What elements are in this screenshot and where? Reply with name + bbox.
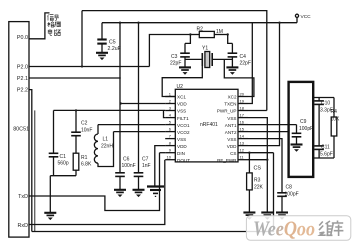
wire VSS pin14 to C8 <box>248 139 282 193</box>
VDD rail B <box>102 22 297 24</box>
ground at TxD area <box>44 213 56 220</box>
80C51 MCU box <box>9 22 29 238</box>
wire XC2 riser <box>224 59 254 96</box>
svg-text:R3: R3 <box>254 178 261 184</box>
node dot C6 rail <box>119 22 121 24</box>
ground for C7 <box>133 190 145 197</box>
wire RxD to DOUT <box>29 160 165 225</box>
capacitor C1 560p <box>49 110 69 175</box>
svg-text:C2: C2 <box>81 121 88 127</box>
antenna loop box <box>289 82 314 177</box>
svg-text:100nF: 100nF <box>122 163 136 169</box>
svg-text:12: 12 <box>240 148 245 153</box>
crystal net left wire <box>185 58 202 60</box>
wire ANT1 to C9 <box>248 124 297 126</box>
svg-text:80C51: 80C51 <box>13 127 29 133</box>
svg-text:100pF: 100pF <box>299 126 313 132</box>
wire VDD pin13 riser to rail B <box>248 23 280 146</box>
resistor R4 10K <box>331 98 341 159</box>
svg-text:TxD: TxD <box>18 194 28 200</box>
capacitor C2 10nF <box>71 110 92 153</box>
svg-text:10nF: 10nF <box>81 127 92 133</box>
svg-text:CS: CS <box>254 166 262 172</box>
svg-text:DIN: DIN <box>177 151 185 156</box>
antenna match bottom node <box>313 157 334 159</box>
node dot CS-R3 <box>248 152 250 154</box>
wire PWR_UP pin18 <box>248 110 267 112</box>
svg-text:VSS: VSS <box>177 137 186 142</box>
svg-text:5: 5 <box>169 120 172 125</box>
inductor L1 22nH <box>94 125 113 167</box>
capacitor C3 22pF <box>170 43 190 67</box>
svg-text:nRF401: nRF401 <box>200 122 218 128</box>
svg-text:13: 13 <box>240 141 245 146</box>
node dot R2 right <box>227 33 229 35</box>
node dot VDD rail <box>278 22 280 24</box>
CS bottom rail <box>32 153 274 232</box>
svg-text:7: 7 <box>169 134 172 139</box>
svg-text:560p: 560p <box>58 161 69 167</box>
svg-text:C1: C1 <box>60 154 67 160</box>
svg-text:XC2: XC2 <box>228 95 237 100</box>
svg-text:10K: 10K <box>331 117 341 123</box>
svg-text:C6: C6 <box>123 156 130 162</box>
wire VDD pin2 <box>121 103 166 105</box>
node dot P2.0 rail A branch <box>81 65 83 67</box>
svg-text:Y1: Y1 <box>202 46 208 52</box>
resistor R1 6.8K <box>73 153 92 176</box>
capacitor C7 1nF <box>134 23 151 190</box>
svg-text:4: 4 <box>169 113 172 118</box>
node dot R2 left <box>189 33 191 35</box>
svg-text:C11: C11 <box>321 145 330 151</box>
svg-text:22pF: 22pF <box>240 61 251 67</box>
crystal Y1 <box>202 46 212 68</box>
svg-text:2: 2 <box>169 99 172 104</box>
wire XC1 riser <box>162 66 202 97</box>
VCC terminal <box>295 14 311 23</box>
svg-text:1M: 1M <box>216 29 223 35</box>
wire P2.1 <box>29 77 121 79</box>
svg-text:VSS: VSS <box>177 109 186 114</box>
ground for C6 <box>114 190 126 197</box>
svg-text:VCC: VCC <box>301 14 312 20</box>
svg-text:VCO2: VCO2 <box>177 130 190 135</box>
svg-text:VCO1: VCO1 <box>177 123 190 128</box>
wire VCO1 <box>98 124 165 126</box>
node dot VDD pin2 <box>120 102 122 104</box>
wire parallel riser <box>34 110 36 231</box>
wire CS pin12 <box>248 152 274 154</box>
jog to pin4 <box>164 110 166 117</box>
svg-text:TXEN: TXEN <box>224 102 236 107</box>
svg-text:C3: C3 <box>171 54 178 60</box>
svg-text:L1: L1 <box>103 137 109 143</box>
svg-text:VSS: VSS <box>227 116 236 121</box>
ground G3 <box>276 213 288 220</box>
wire ANT2 to antenna box <box>248 131 289 133</box>
svg-text:20: 20 <box>240 92 245 97</box>
capacitor C11 5.6pF <box>314 145 332 159</box>
svg-text:16: 16 <box>240 120 245 125</box>
crystal net right wire <box>212 58 232 60</box>
wire P2.2 riser down to CS rail <box>29 90 32 232</box>
svg-text:5.6pF: 5.6pF <box>320 152 333 158</box>
svg-text:R4: R4 <box>331 109 338 115</box>
wire P2.0 <box>29 66 149 68</box>
svg-text:C10: C10 <box>321 101 330 107</box>
resistor R3 22K <box>247 153 264 213</box>
svg-text:R1: R1 <box>81 155 88 161</box>
svg-text:6: 6 <box>169 127 172 132</box>
svg-text:P2.1: P2.1 <box>17 76 28 82</box>
svg-text:WeeQoo: WeeQoo <box>253 216 315 240</box>
svg-text:8: 8 <box>169 141 172 146</box>
svg-text:22nH: 22nH <box>101 143 113 149</box>
signal detect circuit label (Chinese: xin hao / jian ce / dian lu) <box>48 15 61 36</box>
svg-text:18: 18 <box>240 106 245 111</box>
antenna match top node <box>313 97 334 99</box>
svg-text:RxD: RxD <box>18 223 29 229</box>
wire VSS pin17 drop <box>248 118 267 213</box>
svg-text:10: 10 <box>167 155 172 160</box>
wire TXEN riser to VDD rail <box>248 23 252 104</box>
svg-text:C4: C4 <box>240 54 247 60</box>
filter node line (FILT1) <box>54 109 166 111</box>
watermark weiku glyphs <box>319 221 343 237</box>
capacitor C8 100pF <box>277 185 298 213</box>
svg-text:2.2uF: 2.2uF <box>108 46 121 52</box>
svg-text:3: 3 <box>169 106 172 111</box>
svg-text:VDD: VDD <box>227 144 237 149</box>
svg-text:C9: C9 <box>300 119 307 125</box>
wire DIN pin9 <box>160 152 166 154</box>
capacitor C4 22pF <box>228 43 251 67</box>
svg-text:22K: 22K <box>254 184 264 190</box>
svg-text:17: 17 <box>240 113 245 118</box>
big ground near DIN <box>147 187 164 197</box>
svg-text:DOUT: DOUT <box>177 158 190 163</box>
node dot C2 branch <box>75 109 77 111</box>
svg-text:VDD: VDD <box>177 102 187 107</box>
svg-text:14: 14 <box>240 134 245 139</box>
wire R2 right leg to C4 <box>228 35 233 44</box>
svg-text:RF_PWR: RF_PWR <box>217 158 237 163</box>
ground G1 <box>243 213 255 220</box>
node dot RF_PWR join <box>266 159 268 161</box>
wire VDD pin8 down <box>155 146 165 187</box>
svg-text:P2.2: P2.2 <box>17 88 28 94</box>
svg-text:100pF: 100pF <box>285 192 299 198</box>
svg-text:CS: CS <box>230 151 236 156</box>
wire VCO2 <box>114 131 166 133</box>
ground for C5 <box>96 53 108 60</box>
svg-text:FILT1: FILT1 <box>177 116 189 121</box>
svg-text:R2: R2 <box>197 27 204 33</box>
svg-text:VDD: VDD <box>177 144 187 149</box>
svg-text:6.8K: 6.8K <box>81 162 92 168</box>
svg-text:VSS: VSS <box>227 137 236 142</box>
riser P2.0 to R2 line <box>149 35 190 67</box>
svg-text:9: 9 <box>169 148 172 153</box>
svg-text:P2.0: P2.0 <box>17 65 28 71</box>
IC U2 nRF401 <box>175 84 238 162</box>
top rail A (P2.0 to PWR_UP) <box>82 11 267 111</box>
svg-text:C5: C5 <box>109 39 116 45</box>
svg-text:1: 1 <box>169 92 172 97</box>
wire R2 left leg to C3 <box>185 35 190 44</box>
svg-text:U2: U2 <box>177 84 184 90</box>
wire TxD to DIN <box>29 153 160 211</box>
left pin stubs and labels <box>165 92 190 163</box>
svg-text:ANT2: ANT2 <box>225 130 237 135</box>
svg-text:ANT1: ANT1 <box>225 123 237 128</box>
ground G2 <box>261 213 273 220</box>
right pin stubs and labels <box>217 92 248 163</box>
riser to top rail A <box>81 11 83 67</box>
svg-text:XC1: XC1 <box>177 95 186 100</box>
svg-text:15: 15 <box>240 127 245 132</box>
watermark frame <box>246 216 350 241</box>
resistor R2 1M <box>190 27 227 38</box>
svg-text:19: 19 <box>240 99 245 104</box>
ground for C9 <box>291 145 303 152</box>
ground for C4 <box>226 67 238 74</box>
ground drop left <box>49 176 51 213</box>
svg-text:C7: C7 <box>142 156 149 162</box>
wire P0.0 to signal-detect bracket <box>29 13 50 39</box>
svg-text:C8: C8 <box>286 185 293 191</box>
capacitor C9 100pF <box>292 119 313 145</box>
node dot C7 rail <box>137 22 139 24</box>
svg-text:PWR_UP: PWR_UP <box>217 109 237 114</box>
svg-text:1nF: 1nF <box>142 163 151 169</box>
wire RF_PWR pin11 <box>248 159 267 161</box>
svg-text:22pF: 22pF <box>170 61 181 67</box>
capacitor C6 100nF <box>115 23 135 190</box>
capacitor C10 3.3pF <box>314 98 332 146</box>
svg-text:P0.0: P0.0 <box>17 35 28 41</box>
svg-text:11: 11 <box>240 155 245 160</box>
filter ground rail <box>50 175 76 177</box>
ground for C3 <box>179 67 191 74</box>
capacitor C5 <box>97 23 120 53</box>
